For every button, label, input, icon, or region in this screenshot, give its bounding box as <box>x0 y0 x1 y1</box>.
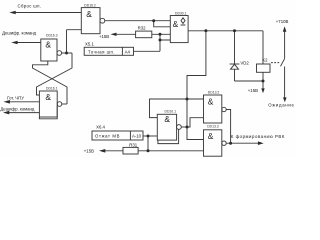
svg-text:+15В: +15В <box>248 88 258 93</box>
svg-text:DD16.1: DD16.1 <box>46 86 58 90</box>
svg-text:VD2: VD2 <box>240 60 249 65</box>
svg-text:&: & <box>173 19 179 29</box>
svg-text:+710В: +710В <box>276 19 289 24</box>
svg-text:R31: R31 <box>129 142 137 147</box>
svg-text:Гот. ЧПУ: Гот. ЧПУ <box>7 95 24 100</box>
svg-text:DD10.1: DD10.1 <box>165 109 177 113</box>
svg-text:+15В: +15В <box>84 148 94 153</box>
svg-text:&: & <box>208 131 214 141</box>
svg-text:Точная шп.: Точная шп. <box>88 49 115 54</box>
svg-text:Дешифр. команд: Дешифр. команд <box>2 31 36 36</box>
svg-text:R32: R32 <box>138 26 146 31</box>
svg-text:DD13.2: DD13.2 <box>208 90 220 94</box>
svg-text:K2: K2 <box>262 57 268 62</box>
svg-text:Х6.4: Х6.4 <box>96 124 105 129</box>
svg-text:&: & <box>45 40 51 50</box>
svg-text:&: & <box>208 96 214 106</box>
svg-text:К формированию РВК: К формированию РВК <box>231 134 285 139</box>
svg-text:&: & <box>164 114 170 124</box>
svg-text:DD16.3: DD16.3 <box>46 34 58 38</box>
svg-text:DD16.2: DD16.2 <box>84 3 96 7</box>
svg-text:DD13.3: DD13.3 <box>207 124 219 128</box>
svg-text:+15В: +15В <box>99 34 109 39</box>
svg-text:DD30.1: DD30.1 <box>175 12 187 16</box>
svg-text:&: & <box>45 92 51 102</box>
svg-text:Ожидание: Ожидание <box>268 103 294 108</box>
svg-text:Дешифр. команд: Дешифр. команд <box>0 106 34 111</box>
svg-text:Х5.1: Х5.1 <box>85 41 94 46</box>
svg-text:Отжат МВ: Отжат МВ <box>95 134 120 139</box>
svg-text:Сброс шп.: Сброс шп. <box>18 4 42 9</box>
svg-text:А4: А4 <box>125 49 131 54</box>
svg-text:А-10: А-10 <box>132 134 142 139</box>
svg-text:&: & <box>86 9 92 19</box>
